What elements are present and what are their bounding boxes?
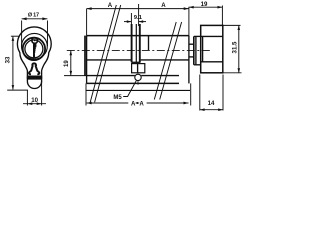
knob grip blade edge xyxy=(202,36,204,61)
label A-A double arrow xyxy=(136,102,139,104)
dimension 33 extension bottom xyxy=(7,89,28,91)
dimension A text left xyxy=(108,2,113,9)
extension line Ø17 left xyxy=(21,21,23,47)
dimension 31.5 text xyxy=(232,41,239,53)
knob wing top edge xyxy=(201,35,223,37)
cylinder body left edge xyxy=(86,36,88,84)
cam centerline xyxy=(135,24,137,62)
break lines pair A xyxy=(90,5,121,102)
body bottom narrow edge left part xyxy=(87,75,135,77)
M5 leader line xyxy=(123,81,136,97)
dimension 9.1 line with outside arrows xyxy=(124,21,131,23)
cam block xyxy=(132,64,145,73)
dimension 31.5 bottom extension xyxy=(221,72,242,74)
cam block inner edge xyxy=(137,64,139,73)
dimension 9.1 text xyxy=(134,15,143,21)
knob collar step edge xyxy=(195,36,197,64)
dimension 31.5 top extension xyxy=(223,24,241,26)
key bow center dot xyxy=(34,39,36,41)
knob collar top xyxy=(194,35,201,37)
body bottom narrow edge right part xyxy=(141,75,179,77)
dimension A-A line left segment xyxy=(87,102,129,104)
dimension 19 extension bottom xyxy=(64,75,86,77)
cylinder body left end thick edge xyxy=(84,36,86,76)
svg-text:Ø 17: Ø 17 xyxy=(28,12,39,18)
knob neck bottom xyxy=(189,56,194,58)
cam slot left edge xyxy=(131,24,133,62)
dimension A-A line right segment xyxy=(147,102,189,104)
svg-text:33: 33 xyxy=(5,56,12,63)
dimension 19 (knob length) text xyxy=(201,1,208,8)
dimension A text right xyxy=(161,2,166,9)
dimension 10 extension right xyxy=(41,81,43,106)
cam slot right edge xyxy=(139,24,141,62)
long baseline under body xyxy=(86,89,190,91)
dimension 14 text xyxy=(208,100,215,107)
dimension 9.1 extension right xyxy=(138,4,140,26)
dimension 10 line xyxy=(23,103,46,105)
centerline axis xyxy=(67,49,210,51)
dimension 14 extension right xyxy=(222,75,224,111)
dimension 33 text xyxy=(5,56,12,63)
extension line body left top xyxy=(86,9,88,36)
keyway profile glyph xyxy=(29,63,39,74)
M5 hole centerline tick xyxy=(137,81,139,85)
knob head outline xyxy=(201,25,223,72)
dimension Ø17 line xyxy=(22,18,48,20)
extension line knob junction top xyxy=(188,7,190,36)
dimension 33 extension top xyxy=(11,35,20,37)
body bottom full edge xyxy=(87,82,179,84)
plug ring inner circle xyxy=(25,40,43,58)
extension line knob right top xyxy=(221,6,223,26)
svg-text:A: A xyxy=(131,100,136,107)
svg-text:14: 14 xyxy=(208,100,215,107)
dimension 19 side text xyxy=(63,60,70,67)
dimension 19 line xyxy=(189,6,222,8)
dimension 31.5 line xyxy=(238,26,240,73)
svg-text:A: A xyxy=(161,2,166,9)
dimension Ø17 text xyxy=(28,12,39,18)
svg-text:A: A xyxy=(139,100,144,107)
dimension 10 extension left xyxy=(26,91,28,106)
dimension 14 line xyxy=(200,109,223,111)
cylinder face circle xyxy=(22,33,48,59)
svg-text:M5: M5 xyxy=(113,95,122,101)
key blade xyxy=(33,43,37,57)
body inner line left part xyxy=(87,59,132,61)
knob neck top xyxy=(189,43,194,45)
plug ring outer circle xyxy=(23,38,45,60)
label A-A text xyxy=(131,100,144,107)
body inner line right part xyxy=(141,59,189,61)
M5 text xyxy=(113,95,122,101)
dimension A line (body length) xyxy=(87,8,189,10)
svg-text:10: 10 xyxy=(31,97,38,104)
dimension 10 text xyxy=(31,97,38,104)
dimension 33 line xyxy=(12,37,14,90)
dimension A-A extension left xyxy=(85,83,87,105)
face view outer contour xyxy=(17,27,51,89)
dimension 14 extension left xyxy=(199,75,201,111)
cylinder body top edge xyxy=(87,35,189,37)
dimension A-A extension right xyxy=(190,83,192,105)
knob collar left edge xyxy=(193,36,195,64)
svg-text:19: 19 xyxy=(63,60,70,67)
dimension 19 (center to bottom) line xyxy=(70,51,72,76)
break lines pair B xyxy=(154,22,181,100)
knob junction edge xyxy=(188,36,190,84)
dark bar below keyway xyxy=(27,76,42,80)
key bow ring xyxy=(32,38,38,44)
cam slot bottom xyxy=(131,61,140,63)
knob wing bottom edge xyxy=(201,61,223,63)
knob collar bottom xyxy=(194,64,201,66)
plug segment edge xyxy=(148,36,150,50)
svg-text:A: A xyxy=(108,2,113,9)
extension line Ø17 right xyxy=(47,21,49,47)
dimension 9.1 extension left xyxy=(130,13,132,26)
M5 screw hole xyxy=(135,74,141,80)
svg-text:31.5: 31.5 xyxy=(232,41,239,53)
